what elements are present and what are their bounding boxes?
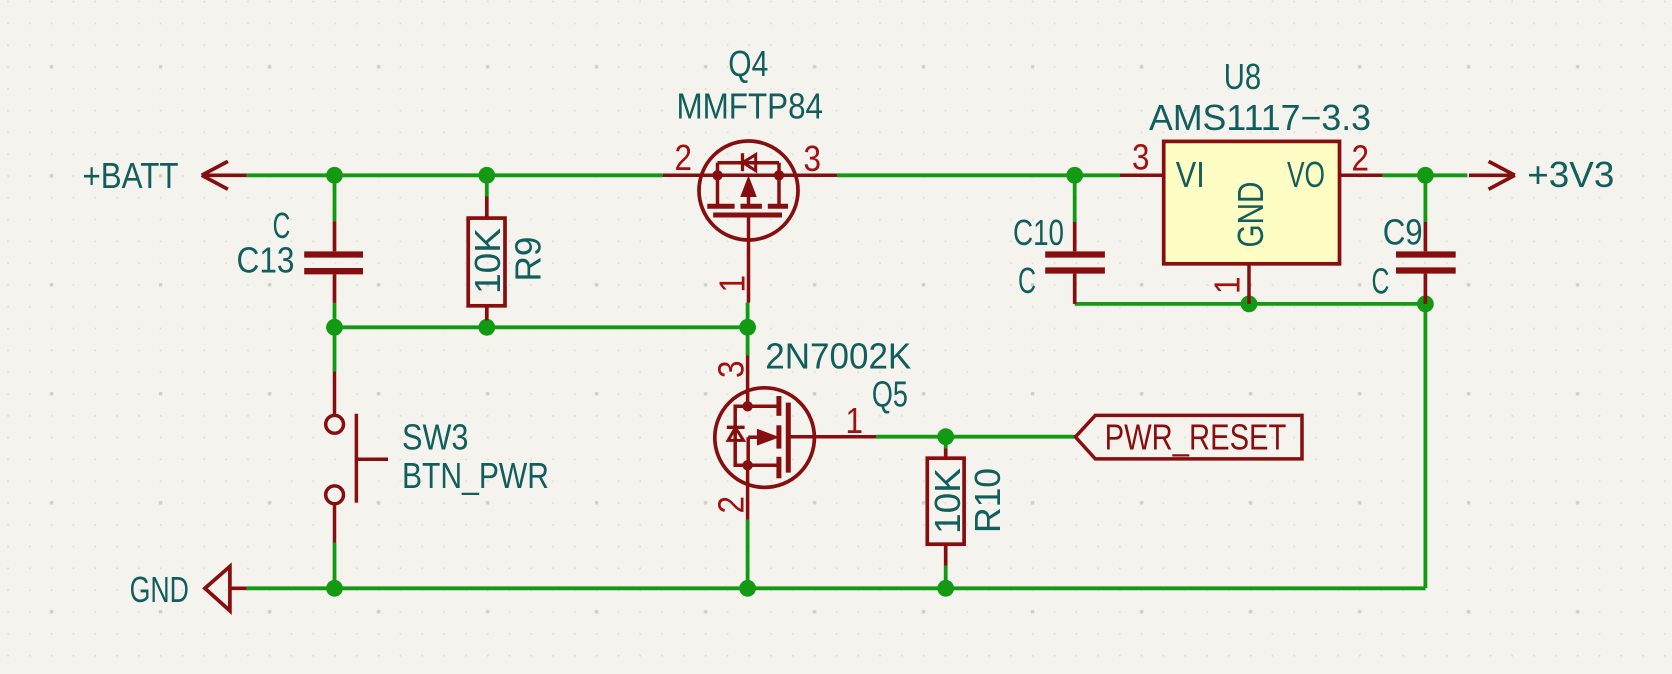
node junction	[326, 580, 343, 597]
wire	[485, 175, 489, 196]
capacitor C13	[304, 221, 363, 303]
node junction	[326, 319, 343, 336]
svg-text:VO: VO	[1287, 154, 1325, 195]
regulator U8	[1120, 141, 1383, 304]
wire	[247, 586, 1426, 590]
transistor Q5	[715, 356, 876, 520]
node junction	[937, 580, 954, 597]
svg-text:MMFTP84: MMFTP84	[677, 86, 824, 127]
svg-text:C10: C10	[1013, 212, 1064, 253]
svg-text:R9: R9	[508, 237, 549, 282]
svg-text:2: 2	[675, 137, 693, 178]
node junction	[1417, 296, 1434, 313]
svg-text:3: 3	[711, 361, 752, 379]
svg-text:1: 1	[712, 275, 753, 293]
U8 pin 2 VO	[1340, 174, 1383, 178]
node junction	[1417, 167, 1434, 184]
svg-text:10K: 10K	[467, 228, 508, 294]
wire	[485, 321, 489, 328]
wire	[1383, 173, 1468, 177]
svg-text:GND: GND	[130, 569, 189, 610]
svg-text:+3V3: +3V3	[1527, 154, 1614, 195]
svg-text:3: 3	[1132, 137, 1150, 178]
wire	[333, 543, 337, 589]
wire	[333, 327, 337, 371]
svg-text:C: C	[273, 205, 291, 246]
node junction	[739, 580, 756, 597]
svg-text:+BATT: +BATT	[83, 155, 179, 196]
svg-text:AMS1117−3.3: AMS1117−3.3	[1149, 97, 1371, 138]
svg-text:C9: C9	[1383, 212, 1423, 253]
power symbol GND	[205, 566, 247, 610]
svg-text:C: C	[1018, 260, 1036, 301]
node junction	[1241, 296, 1258, 313]
svg-text:2: 2	[1352, 138, 1370, 179]
wire	[837, 173, 1120, 177]
wire	[746, 520, 750, 589]
svg-text:Q4: Q4	[728, 43, 768, 84]
svg-text:U8: U8	[1224, 56, 1261, 97]
svg-text:2: 2	[711, 496, 752, 514]
capacitor C9	[1396, 222, 1456, 304]
wire	[746, 303, 750, 328]
svg-text:R10: R10	[967, 468, 1008, 533]
resistor R10	[927, 449, 964, 566]
svg-text:C: C	[1372, 260, 1390, 301]
svg-text:VI: VI	[1176, 154, 1205, 195]
power symbol +BATT	[202, 161, 247, 189]
resistor R9	[468, 197, 505, 321]
wire	[247, 173, 663, 177]
wire	[944, 437, 948, 449]
node junction	[739, 319, 756, 336]
U8 pin 3 VI	[1120, 174, 1164, 178]
wire	[333, 303, 337, 327]
wire	[1075, 302, 1426, 306]
svg-text:PWR_RESET: PWR_RESET	[1105, 416, 1287, 457]
node junction	[478, 319, 495, 336]
wire	[944, 566, 948, 589]
wire	[746, 327, 750, 355]
node junction	[937, 428, 954, 445]
svg-text:SW3: SW3	[402, 417, 469, 458]
capacitor C10	[1045, 222, 1105, 304]
svg-text:10K: 10K	[927, 468, 968, 534]
svg-text:Q5: Q5	[872, 373, 908, 414]
switch SW3	[326, 372, 388, 543]
svg-text:3: 3	[804, 138, 822, 179]
wire	[1424, 175, 1428, 222]
node junction	[478, 167, 495, 184]
wire	[1073, 175, 1077, 222]
svg-text:2N7002K: 2N7002K	[765, 336, 911, 377]
wire	[333, 175, 337, 221]
power symbol +3V3	[1469, 161, 1515, 189]
node junction	[326, 167, 343, 184]
wire	[876, 435, 1075, 439]
wire	[1424, 304, 1428, 588]
transistor Q4	[663, 141, 837, 303]
svg-text:GND: GND	[1230, 182, 1271, 248]
svg-text:BTN_PWR: BTN_PWR	[402, 455, 549, 496]
U8 pin 1 GND	[1247, 264, 1251, 304]
hierarchical label PWR_RESET	[1075, 415, 1302, 459]
node junction	[1066, 167, 1083, 184]
wire	[335, 325, 748, 329]
svg-text:1: 1	[1207, 277, 1248, 295]
svg-text:1: 1	[846, 400, 864, 441]
